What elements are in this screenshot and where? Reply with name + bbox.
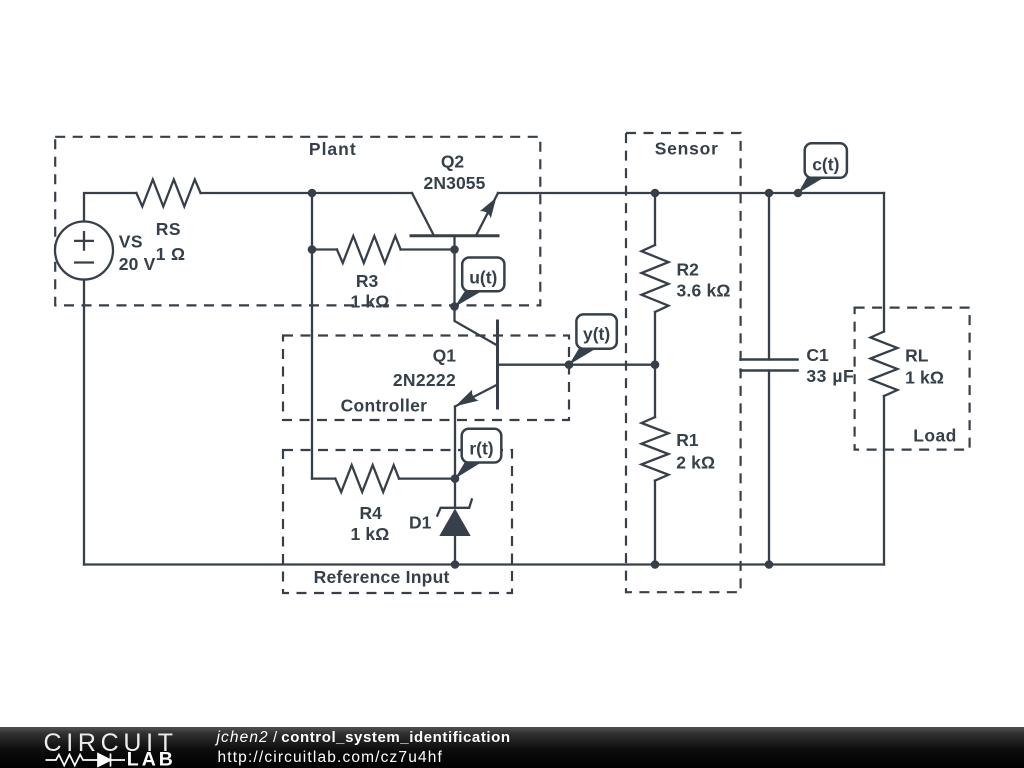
svg-text:R2: R2 [677,260,700,280]
wire D1 to bottom [454,536,456,565]
zener diode D1 cathode bar [437,499,472,515]
resistor R3 [337,236,401,263]
resistor R4 [335,465,399,492]
svg-text:33 µF: 33 µF [806,366,854,386]
capacitor C1 plates [741,360,798,371]
transistor Q1 collector from u(t) [455,307,498,346]
svg-text:y(t): y(t) [583,324,610,344]
svg-text:D1: D1 [409,513,432,533]
box Plant [55,137,540,306]
junction node dots [308,189,803,569]
transistor Q2 base lead [453,236,455,307]
resistor RS [136,180,200,207]
component value labels [119,152,944,544]
wire VS bottom to ground rail [83,280,85,565]
wire right edge bottom [883,396,885,565]
svg-text:Q1: Q1 [433,346,457,366]
node label callouts [455,143,847,478]
svg-text:1 kΩ: 1 kΩ [351,292,390,312]
transistor Q2 emitter arrow [480,198,497,219]
wire C1 top lead [768,193,770,360]
transistor Q1 emitter diagonal [455,385,498,407]
wire top left from VS to RS [84,193,136,222]
wire right edge top [883,193,885,332]
node C1 top [765,189,774,198]
transistor Q2 base bar [411,234,498,237]
box Reference Input [283,450,512,593]
svg-text:3.6 kΩ: 3.6 kΩ [677,281,731,301]
svg-text:20 V: 20 V [119,254,156,274]
wire sensor bottom lead [654,481,656,565]
node top-left junction [308,189,317,198]
svg-text:R4: R4 [360,503,383,523]
svg-text:Load: Load [913,426,956,446]
wire Q2 emitter to right edge [498,192,884,194]
node D1 bottom [451,560,460,569]
svg-text:VS: VS [119,232,143,252]
callout y(t) [569,348,596,365]
zener diode D1 triangle [439,509,470,537]
node y(t) [565,360,574,369]
svg-text:u(t): u(t) [469,268,497,288]
box Sensor [626,133,741,592]
node C1 bottom [765,560,774,569]
node u(t) [450,302,459,311]
wire C1 bottom lead [768,371,770,565]
dashed group boxes [55,133,969,593]
box Controller [283,336,569,421]
wire node to R3 level vertical [311,193,313,479]
svg-text:R3: R3 [356,271,379,291]
box Load [855,308,970,450]
svg-text:Q2: Q2 [441,152,465,172]
transistor Q2 emitter diagonal [476,193,498,236]
svg-text:http://circuitlab.com/cz7u4hf: http://circuitlab.com/cz7u4hf [218,749,443,766]
node Q2 base / R3 junction [450,245,459,254]
callout c(t) [798,177,824,194]
node sensor top [651,189,660,198]
svg-text:R1: R1 [676,430,699,450]
svg-text:2N2222: 2N2222 [393,370,456,390]
svg-text:RL: RL [905,346,929,366]
transistor Q1 emitter arrow [455,390,478,407]
svg-text:Sensor: Sensor [655,139,719,159]
wire sensor middle [654,312,656,417]
node c(t) wire [794,189,803,198]
transistor Q1 base bar [496,321,499,408]
wire RS to Q2 collector [201,192,412,194]
svg-text:2 kΩ: 2 kΩ [676,453,715,473]
svg-text:1 kΩ: 1 kΩ [905,368,944,388]
resistor R4 leads [312,477,455,479]
svg-text:2N3055: 2N3055 [423,173,485,193]
svg-text:1 kΩ: 1 kΩ [351,524,390,544]
svg-text:r(t): r(t) [469,439,493,459]
logo resistor-diode symbol [46,754,126,767]
svg-text:c(t): c(t) [812,155,839,175]
svg-text:jchen2 / control_system_identi: jchen2 / control_system_identification [215,729,511,746]
node r(t) [451,474,460,483]
wire Q1 emitter down to r(t) node [454,407,456,508]
resistor RL [871,332,898,397]
svg-text:RS: RS [156,219,181,239]
svg-text:Plant: Plant [309,139,357,159]
transistor Q2 collector diagonal [412,193,434,236]
svg-text:Reference Input: Reference Input [314,567,450,587]
callout r(t) [455,461,482,479]
node R3 left junction [308,245,317,254]
svg-text:C1: C1 [806,345,829,365]
node sensor middle [651,360,660,369]
callout u(t) [455,290,483,307]
node sensor bottom [651,560,660,569]
footer bar [0,727,1024,768]
svg-text:1 Ω: 1 Ω [156,244,186,264]
svg-text:LAB: LAB [127,748,176,768]
resistor R1 [642,417,669,481]
wire sensor top lead [654,193,656,245]
voltage source VS [55,222,113,280]
svg-text:Controller: Controller [341,396,428,416]
transistor Q1 base lead to sensor [498,364,656,366]
resistor R2 [642,245,669,312]
resistor R3 leads [312,248,455,250]
wire bottom rail [84,563,884,565]
